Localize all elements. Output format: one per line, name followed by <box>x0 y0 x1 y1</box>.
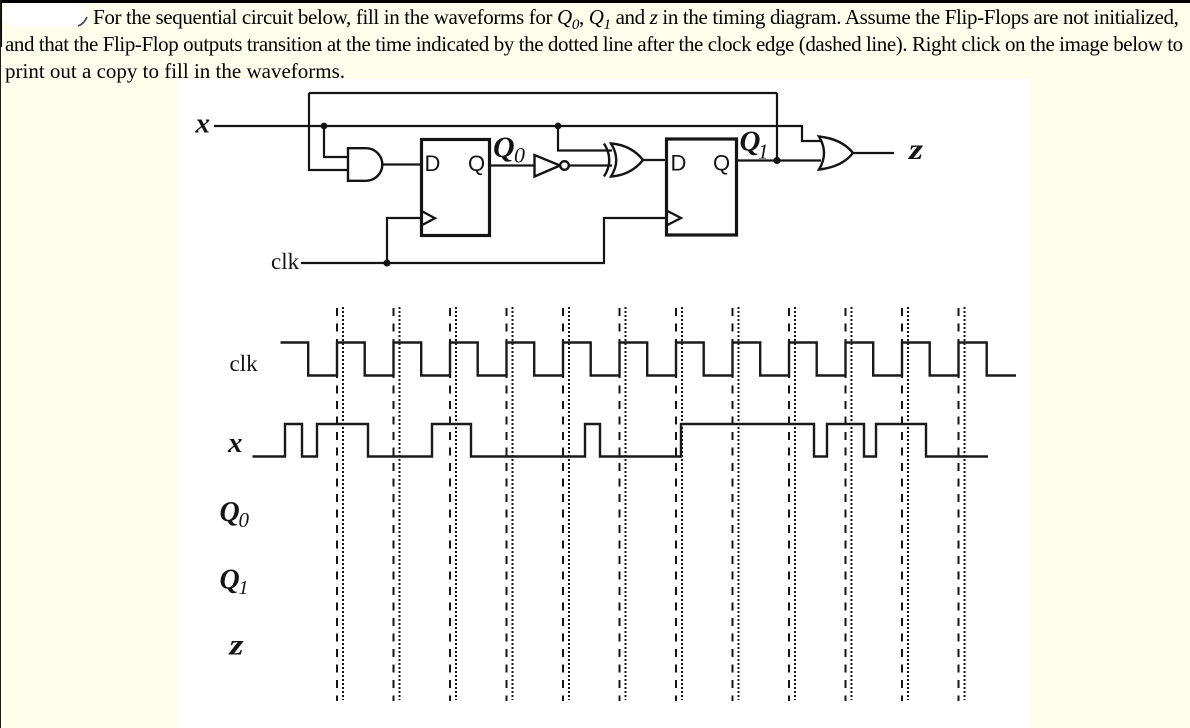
junction dot x/AND <box>321 123 328 130</box>
FF1 clock triangle <box>422 211 436 225</box>
junction dot clk <box>383 259 390 266</box>
text line 2 <box>5 32 1183 57</box>
input x wire <box>214 126 821 141</box>
dotted transition lines <box>343 307 965 700</box>
white erased blob top-left <box>3 3 87 27</box>
wire: XOR output to FF2 D <box>643 159 666 161</box>
D flip-flop FF2 <box>667 139 737 235</box>
wire: feedback vertical to AND <box>309 93 348 170</box>
OR gate <box>819 137 853 170</box>
svg-text:Q: Q <box>220 497 240 528</box>
top black bar <box>0 0 1190 3</box>
junction dot x/XOR <box>555 123 562 130</box>
node: x to AND branch <box>324 126 348 157</box>
wire: inverter to XOR <box>569 164 612 166</box>
wire: FF1 Q to inverter <box>490 164 535 166</box>
AND gate <box>348 148 382 181</box>
text line 3 <box>5 59 345 84</box>
wire: AND output to FF1 D <box>383 163 421 165</box>
svg-text:1: 1 <box>239 577 249 599</box>
svg-text:clk: clk <box>271 249 300 274</box>
junction dot Q1 <box>773 157 780 164</box>
text line 1 <box>93 5 1179 34</box>
svg-text:z: z <box>908 133 923 166</box>
wire: FF2 Q to OR <box>737 159 821 161</box>
XOR gate body <box>611 144 643 177</box>
svg-text:Q: Q <box>493 131 515 164</box>
wire: clk to FF1 <box>387 218 421 263</box>
dashed clock-edge lines <box>337 308 959 701</box>
wire: Q1 junction vertical <box>776 93 778 161</box>
svg-text:D: D <box>671 151 687 176</box>
svg-text:D: D <box>425 151 441 176</box>
x waveform <box>253 424 989 457</box>
svg-text:1: 1 <box>758 140 769 164</box>
left black edge <box>0 0 2 47</box>
FF2 clock triangle <box>667 211 682 226</box>
svg-text:x: x <box>227 427 243 459</box>
svg-text:Q: Q <box>468 151 485 176</box>
inverter U2 <box>535 155 561 177</box>
wire: top feedback Q1 to AND <box>309 92 777 94</box>
clk wire <box>301 218 666 263</box>
inverter bubble <box>560 161 569 170</box>
svg-text:z: z <box>228 628 243 661</box>
svg-text:Q: Q <box>220 565 240 596</box>
pen mark remnant <box>76 16 90 28</box>
D flip-flop FF1 <box>422 140 490 236</box>
svg-text:clk: clk <box>230 351 259 376</box>
svg-text:Q: Q <box>713 151 730 176</box>
white image area <box>180 79 1030 728</box>
wire: OR output to z <box>853 152 894 154</box>
svg-text:0: 0 <box>239 508 250 532</box>
svg-text:x: x <box>195 108 211 140</box>
svg-text:0: 0 <box>514 143 525 168</box>
node: x to XOR branch <box>558 126 612 151</box>
clk waveform <box>281 343 1017 376</box>
XOR gate back arc <box>604 144 609 177</box>
